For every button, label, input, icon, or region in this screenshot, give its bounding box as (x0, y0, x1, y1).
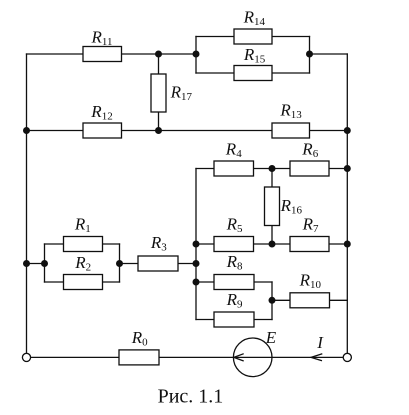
wire R6 right (329, 168, 347, 170)
wire middle-left vertical (195, 169, 197, 320)
wire R5 right to node (254, 243, 291, 245)
EMF source E circle (233, 338, 272, 377)
node R5-R7-R16 junction (269, 241, 276, 248)
wire R15 right (272, 72, 310, 74)
resistor R15 (234, 66, 272, 81)
resistor R11 (83, 47, 122, 62)
wire top-left horizontal to R11 (27, 53, 84, 55)
wire R7 right (329, 243, 347, 245)
wire top-right horizontal (310, 53, 348, 55)
node R1-R2 right (116, 260, 123, 267)
resistor R14 (234, 29, 272, 44)
resistor R10 (290, 293, 330, 308)
resistor R16 (265, 187, 280, 226)
node left vertical / main line (23, 260, 30, 267)
wire R8-R9 right vertical (271, 282, 273, 320)
wire R9 left (196, 319, 214, 321)
node R17-R12 junction (155, 127, 162, 134)
terminal right (343, 353, 351, 361)
resistor R0 (119, 350, 159, 365)
wire R12 left (27, 130, 84, 132)
wire R17 top stub (158, 54, 160, 74)
wire R1 right (103, 243, 120, 245)
resistor R6 (290, 161, 329, 176)
wire R14-R15 left vertical (195, 37, 197, 74)
wire bottom left terminal to R0 (31, 356, 119, 358)
node R4-R6-R16 junction (269, 165, 276, 172)
node R5 left (193, 241, 200, 248)
wire R14-R15 right vertical (309, 37, 311, 74)
wire R14 right (272, 36, 310, 38)
wire R12 right to R13 left (122, 130, 273, 132)
resistor R7 (290, 237, 329, 252)
wire R17 bottom stub (158, 112, 160, 131)
wire R3 right (178, 263, 196, 265)
wire node to R3 (120, 263, 139, 265)
resistor R9 (214, 312, 254, 327)
node R7 right (344, 241, 351, 248)
wire right vertical (346, 54, 348, 353)
node R3 right junction (193, 260, 200, 267)
wire R11 right to node (122, 53, 197, 55)
wire bottom R0 to right terminal (159, 356, 343, 358)
wire R4 right to node (254, 168, 291, 170)
wire left vertical (26, 54, 28, 353)
svg-text:Рис. 1.1: Рис. 1.1 (158, 386, 224, 408)
node R14-R15 right junction (306, 51, 313, 58)
wire main line to R1R2 block (27, 263, 45, 265)
node R14-R15 left junction (193, 51, 200, 58)
resistor R17 (151, 74, 166, 112)
wire R4 left corner (196, 168, 214, 170)
wire R5 left (196, 243, 214, 245)
node R8-R9-R10 junction (269, 297, 276, 304)
resistor R12 (83, 123, 122, 138)
node left vertical / R12 (23, 127, 30, 134)
wire R16 top stub (271, 169, 273, 188)
wire R10 right (330, 299, 348, 301)
node R13 right (344, 127, 351, 134)
resistor R13 (272, 123, 310, 138)
wire R2 left (45, 281, 64, 283)
node R6 right (344, 165, 351, 172)
resistor R3 (138, 256, 178, 271)
wire R8 left (196, 281, 214, 283)
node R1-R2 left (41, 260, 48, 267)
wire R1-R2 left vertical (44, 244, 46, 282)
resistor R2 (64, 275, 103, 290)
wire R13 right (310, 130, 348, 132)
wire R14 left (196, 36, 234, 38)
node R8 left (193, 279, 200, 286)
resistor R8 (214, 275, 254, 290)
resistor R1 (64, 237, 103, 252)
EMF source arrow (234, 354, 244, 361)
wire R2 right (103, 281, 120, 283)
current I arrow (311, 354, 322, 361)
resistor R5 (214, 237, 254, 252)
wire R9 right (254, 319, 272, 321)
terminal left (22, 353, 30, 361)
wire R15 left (196, 72, 234, 74)
wire R8 right (254, 281, 272, 283)
svg-text:E: E (265, 328, 277, 347)
wire R1-R2 right vertical (119, 244, 121, 282)
wire R1 left (45, 243, 64, 245)
wire R16 bottom stub (271, 226, 273, 245)
resistor R4 (214, 161, 254, 176)
node R11-R17 junction (155, 51, 162, 58)
wire R10 left (272, 299, 290, 301)
